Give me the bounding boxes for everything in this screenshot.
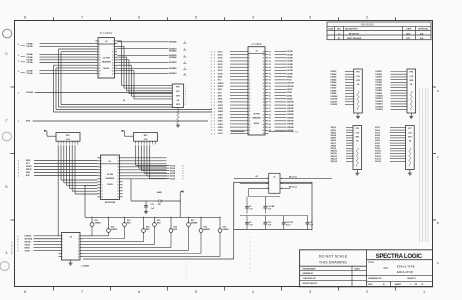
- wires RP1 pins down to U1: [61, 145, 97, 194]
- connector J2 pin stubs: [95, 41, 117, 76]
- svg-text:2: 2: [18, 92, 19, 94]
- svg-text:DIOB3/: DIOB3/: [376, 77, 383, 79]
- svg-text:2: 2: [211, 55, 212, 57]
- wires J2 lower-left pins routed down to bus: [54, 49, 213, 112]
- svg-text:8: 8: [24, 16, 26, 20]
- wire cap rail upper: [247, 197, 265, 205]
- svg-text:DIO7/: DIO7/: [218, 70, 223, 72]
- svg-text:THIS DRAWING: THIS DRAWING: [319, 260, 347, 264]
- svg-text:2: 2: [18, 121, 19, 123]
- svg-text:4: 4: [252, 290, 254, 294]
- hole punch top-left: [3, 29, 12, 38]
- svg-text:2: 2: [18, 163, 19, 165]
- svg-text:REN/: REN/: [218, 77, 223, 79]
- wire +5V drop to LED rail: [85, 186, 97, 218]
- svg-text:3: 3: [309, 16, 311, 20]
- svg-text:2: 2: [211, 99, 212, 101]
- svg-text:DIOB5/: DIOB5/: [376, 82, 383, 84]
- svg-text:GND5: GND5: [218, 114, 223, 116]
- svg-text:GREEN: GREEN: [111, 229, 118, 231]
- revisions table: [327, 22, 431, 40]
- svg-text:GND4: GND4: [218, 110, 223, 113]
- svg-text:22: 22: [249, 117, 251, 119]
- svg-text:DIO2B/: DIO2B/: [287, 54, 294, 56]
- svg-text:DIO5A/: DIO5A/: [27, 56, 34, 59]
- svg-text:5: 5: [195, 16, 197, 20]
- svg-text:25: 25: [249, 127, 251, 129]
- svg-text:DI012B/: DI012B/: [331, 101, 338, 103]
- crease line (faint dashed): [185, 261, 187, 278]
- svg-text:LPBKA/: LPBKA/: [25, 235, 32, 238]
- svg-text:2: 2: [211, 133, 212, 135]
- svg-text:RP3: RP3: [356, 72, 359, 74]
- svg-text:LOGC: LOGC: [218, 133, 224, 135]
- svg-text:GND8B/: GND8B/: [287, 124, 295, 126]
- svg-text:37: 37: [269, 108, 271, 110]
- svg-text:2: 2: [211, 114, 212, 116]
- junction dot U1 left: [84, 185, 85, 186]
- svg-text:ONLA/: ONLA/: [25, 243, 31, 246]
- svg-text:2: 2: [211, 86, 212, 88]
- capacitor C6: [263, 204, 275, 213]
- svg-text:30: 30: [269, 86, 271, 88]
- svg-text:2: 2: [211, 92, 212, 94]
- svg-text:2: 2: [211, 73, 212, 75]
- RP1 bottom pin labels: [58, 141, 79, 146]
- svg-text:2: 2: [214, 70, 215, 72]
- svg-text:DIO3B/: DIO3B/: [287, 58, 294, 60]
- svg-text:DI013B/: DI013B/: [331, 104, 338, 106]
- svg-text:19: 19: [249, 108, 251, 110]
- title block: [300, 250, 433, 287]
- svg-text:2: 2: [214, 130, 215, 132]
- svg-text:1: 1: [423, 290, 425, 294]
- svg-text:DI08B/: DI08B/: [331, 90, 337, 92]
- svg-text:RP5: RP5: [176, 87, 180, 89]
- svg-text:2: 2: [366, 290, 368, 294]
- svg-text:B: B: [5, 185, 7, 189]
- wire RP1 pin drop joins J6: [57, 235, 59, 237]
- svg-text:SPECTRA LOGIC: SPECTRA LOGIC: [376, 253, 423, 260]
- svg-text:DIO8B/: DIO8B/: [287, 73, 294, 75]
- svg-text:APCHKA: APCHKA: [25, 237, 33, 240]
- svg-text:36 PIN: 36 PIN: [103, 58, 110, 60]
- svg-text:DIO8/: DIO8/: [218, 73, 223, 75]
- U1 left control labels: [18, 160, 97, 177]
- label column between RP6 and RP7: [375, 127, 406, 163]
- LED DS7 AMBER: [187, 217, 198, 229]
- capacitor C8: [245, 220, 253, 229]
- svg-text:2: 2: [211, 130, 212, 132]
- svg-text:RP4: RP4: [410, 71, 413, 74]
- svg-text:DATA03/: DATA03/: [169, 61, 177, 64]
- J6 left labels and wires: [18, 235, 59, 253]
- svg-text:DAVB/: DAVB/: [287, 88, 293, 91]
- svg-text:2: 2: [211, 111, 212, 113]
- svg-text:DIO8A/: DIO8A/: [27, 42, 34, 45]
- svg-text:EOI/: EOI/: [26, 175, 30, 177]
- svg-text:REVISIONS: REVISIONS: [361, 24, 374, 27]
- svg-text:2: 2: [18, 160, 19, 162]
- svg-text:IFCB/: IFCB/: [287, 80, 292, 82]
- svg-text:DI03B/: DI03B/: [331, 77, 337, 79]
- svg-text:DIOB4/: DIOB4/: [376, 78, 383, 81]
- net label group right of J1 (feeds RP3): [331, 71, 338, 106]
- svg-text:DI04A: DI04A: [170, 172, 176, 175]
- svg-text:DI01B/: DI01B/: [331, 71, 337, 73]
- svg-text:CR1: CR1: [158, 204, 162, 206]
- svg-text:DIOB10/: DIOB10/: [376, 96, 384, 98]
- LED DS5 RED: [153, 217, 162, 229]
- capacitor C7A: [263, 220, 271, 229]
- svg-text:2: 2: [214, 51, 215, 53]
- svg-text:B3US: B3US: [103, 68, 109, 70]
- svg-text:ATN/: ATN/: [218, 94, 223, 97]
- svg-text:2: 2: [214, 61, 215, 63]
- svg-text:2: 2: [214, 105, 215, 107]
- svg-text:A CABLE: A CABLE: [251, 43, 262, 46]
- svg-text:2: 2: [214, 114, 215, 116]
- resistor pack RP4 (SIP): [407, 69, 416, 115]
- J5 right term labels: [284, 176, 333, 189]
- svg-text:SIG14/: SIG14/: [375, 160, 381, 163]
- svg-text:2: 2: [211, 124, 212, 126]
- zone column numbers bottom: [24, 290, 425, 294]
- svg-text:GND5B/: GND5B/: [287, 114, 295, 116]
- svg-text:J5: J5: [273, 176, 275, 178]
- svg-text:2: 2: [214, 83, 215, 85]
- svg-text:SIP8: SIP8: [176, 104, 180, 106]
- resistor pack RP2: [122, 130, 158, 141]
- svg-text:DATA04/: DATA04/: [169, 56, 177, 59]
- svg-text:2: 2: [214, 89, 215, 91]
- LED DS4 RED: [142, 217, 151, 235]
- svg-text:10: 10: [249, 80, 251, 82]
- svg-text:2: 2: [214, 73, 215, 75]
- capacitor C5: [245, 204, 253, 213]
- svg-text:31: 31: [269, 89, 271, 91]
- svg-text:CHECKED BY: CHECKED BY: [303, 278, 317, 280]
- svg-text:2: 2: [211, 64, 212, 66]
- svg-text:DIO6B/: DIO6B/: [287, 67, 294, 69]
- svg-text:DIO6A/: DIO6A/: [27, 53, 34, 56]
- svg-text:4: 4: [252, 16, 254, 20]
- svg-text:DATA06/: DATA06/: [169, 49, 177, 52]
- svg-text:DIO5B/: DIO5B/: [287, 64, 294, 66]
- svg-text:2: 2: [214, 102, 215, 104]
- svg-text:2: 2: [214, 55, 215, 57]
- svg-text:DI09B/: DI09B/: [331, 93, 337, 95]
- svg-text:2: 2: [211, 127, 212, 129]
- svg-text:FIRST RELEASE: FIRST RELEASE: [347, 37, 362, 40]
- svg-text:2: 2: [211, 108, 212, 110]
- svg-text:NDAC/: NDAC/: [218, 82, 224, 85]
- svg-text:36 PIN: 36 PIN: [253, 114, 260, 116]
- svg-text:NRFD/: NRFD/: [218, 86, 224, 88]
- svg-text:15: 15: [249, 95, 251, 97]
- J1 right pin wires: [275, 52, 287, 131]
- svg-text:11/91: 11/91: [406, 38, 410, 40]
- svg-text:2: 2: [211, 58, 212, 60]
- svg-text:DIAGA/: DIAGA/: [25, 240, 32, 243]
- svg-text:DRAWN BY: DRAWN BY: [303, 272, 315, 275]
- svg-text:NRFDB/: NRFDB/: [287, 86, 295, 88]
- svg-text:RP2: RP2: [144, 135, 148, 137]
- svg-text:DIO1/: DIO1/: [218, 51, 223, 53]
- svg-text:APPROVED BY: APPROVED BY: [303, 282, 318, 285]
- svg-text:SIG4/: SIG4/: [375, 134, 380, 137]
- svg-text:22: 22: [269, 61, 271, 63]
- svg-text:SRQ14/: SRQ14/: [331, 160, 338, 163]
- svg-text:2: 2: [18, 60, 19, 62]
- svg-text:SIP8: SIP8: [176, 95, 180, 97]
- svg-text:2: 2: [214, 133, 215, 135]
- svg-text:GND1: GND1: [218, 102, 223, 104]
- IC U1 SN75162: [101, 155, 120, 204]
- svg-text:IFC/: IFC/: [218, 80, 222, 82]
- hole punch bottom-left: [0, 262, 9, 271]
- svg-text:DATE: DATE: [355, 267, 361, 270]
- svg-text:EOIB/: EOIB/: [287, 92, 293, 94]
- svg-text:2: 2: [18, 166, 19, 168]
- svg-text:GN10B/: GN10B/: [287, 130, 294, 132]
- svg-text:DRAWING NO.: DRAWING NO.: [368, 277, 382, 280]
- svg-text:38: 38: [269, 111, 271, 113]
- svg-text:GND2: GND2: [218, 105, 223, 107]
- svg-text:DIOB9/: DIOB9/: [376, 93, 383, 95]
- svg-text:0000071 REV A: 0000071 REV A: [11, 241, 14, 255]
- svg-text:HEADER: HEADER: [252, 117, 261, 120]
- svg-text:GN10: GN10: [218, 130, 223, 132]
- svg-text:GND1B/: GND1B/: [287, 102, 295, 104]
- svg-text:GND9: GND9: [218, 127, 223, 129]
- svg-text:RENB/: RENB/: [287, 76, 293, 78]
- svg-text:DIO3A/: DIO3A/: [27, 61, 34, 64]
- svg-text:HEADER: HEADER: [106, 177, 115, 180]
- resistor pack RP6 (SIP): [353, 126, 362, 172]
- svg-text:A1: A1: [338, 37, 340, 40]
- svg-text:DI05B/: DI05B/: [331, 82, 337, 84]
- svg-text:RP7: RP7: [408, 128, 411, 130]
- svg-text:25: 25: [269, 70, 271, 72]
- svg-text:2: 2: [18, 239, 19, 241]
- svg-text:GND3B/: GND3B/: [287, 108, 295, 110]
- wire cap rail lower: [240, 216, 308, 221]
- svg-text:RP6: RP6: [356, 128, 359, 130]
- svg-text:DI04B/: DI04B/: [331, 78, 337, 81]
- svg-text:10: 10: [101, 185, 103, 187]
- svg-text:26: 26: [269, 73, 271, 75]
- svg-text:GREEN: GREEN: [222, 229, 229, 231]
- svg-text:SIP8: SIP8: [408, 137, 412, 139]
- svg-text:002: 002: [384, 266, 389, 270]
- diode CR1 with J4A/B label: [131, 179, 180, 206]
- svg-text:L130AH: L130AH: [82, 265, 90, 268]
- ground below RP7: [408, 172, 412, 176]
- J1 pin stubs: [245, 51, 269, 135]
- svg-text:DIO2/: DIO2/: [218, 54, 223, 56]
- svg-text:DIOB12/: DIOB12/: [376, 101, 384, 103]
- svg-text:DIO3/: DIO3/: [218, 58, 223, 60]
- svg-text:2: 2: [366, 16, 368, 20]
- svg-text:DIO4B/: DIO4B/: [287, 60, 294, 63]
- svg-text:2: 2: [18, 242, 19, 244]
- LED DS2 GREEN: [107, 217, 118, 235]
- svg-text:2: 2: [214, 92, 215, 94]
- svg-text:2: 2: [18, 248, 19, 250]
- connector J2 (36 pin header, B cable): [98, 31, 115, 78]
- svg-text:2: 2: [214, 86, 215, 88]
- J1 bottom stub wires: [231, 132, 298, 134]
- J1 left labels and wires: [211, 51, 245, 135]
- svg-text:12: 12: [101, 191, 103, 193]
- LED DS6 RED: [169, 217, 178, 235]
- svg-text:21: 21: [269, 58, 271, 60]
- svg-text:DI010B/: DI010B/: [331, 96, 338, 98]
- svg-text:2: 2: [211, 51, 212, 53]
- svg-text:8: 8: [77, 144, 78, 146]
- svg-text:GND7B/: GND7B/: [287, 121, 295, 123]
- svg-text:RP1: RP1: [66, 135, 70, 137]
- svg-text:2: 2: [211, 70, 212, 72]
- svg-text:EOI/: EOI/: [218, 92, 222, 94]
- svg-text:2: 2: [211, 105, 212, 107]
- svg-text:2: 2: [211, 96, 212, 98]
- svg-text:DI01A: DI01A: [170, 164, 176, 167]
- svg-text:5: 5: [195, 290, 197, 294]
- connector J6: [62, 233, 90, 268]
- svg-text:3: 3: [309, 290, 311, 294]
- wire inner cap rail: [249, 196, 280, 198]
- svg-text:2: 2: [18, 44, 19, 46]
- svg-text:7: 7: [81, 290, 83, 294]
- svg-text:0000071: 0000071: [407, 278, 416, 280]
- svg-text:2: 2: [18, 175, 19, 177]
- svg-text:B3US: B3US: [107, 184, 113, 186]
- svg-text:6: 6: [138, 290, 140, 294]
- svg-text:RE LAYOUT: RE LAYOUT: [349, 32, 360, 35]
- svg-text:GND2B/: GND2B/: [287, 105, 295, 107]
- svg-text:DIOB8/: DIOB8/: [376, 90, 383, 92]
- svg-text:DIO4A/: DIO4A/: [27, 59, 34, 62]
- zone column numbers top: [24, 16, 368, 20]
- svg-text:GND8: GND8: [218, 124, 223, 126]
- U1 pin stubs: [97, 158, 122, 199]
- svg-text:2: 2: [211, 77, 212, 79]
- svg-text:2: 2: [211, 61, 212, 63]
- svg-text:SN75162B: SN75162B: [105, 202, 116, 204]
- wires J2 right pins to DATA labels: [117, 40, 186, 75]
- svg-text:2: 2: [18, 245, 19, 247]
- svg-text:GPC: GPC: [176, 91, 181, 93]
- svg-text:20: 20: [249, 111, 251, 113]
- fold line (faint dashed): [249, 236, 251, 272]
- svg-text:18: 18: [249, 105, 251, 107]
- RP5 right pin marks: [185, 85, 186, 106]
- svg-text:2: 2: [211, 89, 212, 91]
- wires J2 left pins to labels: [40, 44, 96, 74]
- svg-text:REN/: REN/: [26, 160, 31, 162]
- svg-text:GND6B/: GND6B/: [287, 117, 295, 119]
- svg-text:23: 23: [269, 64, 271, 66]
- svg-text:SIP8: SIP8: [409, 80, 413, 82]
- J2 left signal labels (DIO pairs): [18, 42, 33, 75]
- svg-text:DI02A: DI02A: [170, 167, 176, 170]
- svg-text:NDAC/: NDAC/: [26, 165, 32, 168]
- capacitor C31: [306, 220, 314, 229]
- wire RP1 pin1 long drop to J6: [57, 145, 59, 236]
- svg-text:20: 20: [269, 54, 271, 56]
- svg-text:2: 2: [214, 64, 215, 66]
- svg-text:AB (term): AB (term): [289, 176, 297, 179]
- ground below RP4: [409, 115, 413, 119]
- wires J2 right pins routed down to RP5: [117, 41, 172, 99]
- node ATN/: [18, 120, 208, 123]
- svg-text:DIO2A/: DIO2A/: [27, 69, 34, 72]
- svg-text:2: 2: [214, 67, 215, 69]
- J6 pin stubs: [59, 236, 84, 259]
- LED DS9 GREEN: [218, 217, 229, 235]
- svg-text:27: 27: [249, 133, 251, 135]
- svg-text:GREEN: GREEN: [94, 222, 101, 224]
- ground below J6: [69, 260, 73, 265]
- svg-text:NRFD/: NRFD/: [26, 169, 32, 171]
- svg-text:DATA02/: DATA02/: [169, 67, 177, 70]
- svg-text:DI06B/: DI06B/: [331, 85, 337, 87]
- LED DS8 AMBER: [199, 217, 210, 235]
- svg-text:B CABLE: B CABLE: [100, 31, 112, 35]
- svg-text:2: 2: [211, 67, 212, 69]
- svg-text:2: 2: [214, 80, 215, 82]
- svg-text:EDM & TAPE: EDM & TAPE: [397, 265, 415, 269]
- svg-text:DI06A: DI06A: [170, 177, 176, 180]
- J1 right net labels column: [269, 51, 294, 132]
- svg-text:21: 21: [249, 114, 251, 116]
- svg-text:L2: L2: [296, 132, 298, 134]
- wires RP2 pins down to DI bus labels: [136, 145, 170, 178]
- svg-text:12: 12: [249, 86, 251, 88]
- svg-text:DIO4/: DIO4/: [218, 60, 223, 63]
- svg-text:2: 2: [214, 108, 215, 110]
- svg-text:32: 32: [269, 92, 271, 94]
- svg-text:17: 17: [249, 102, 251, 104]
- svg-text:DIO1B/: DIO1B/: [287, 51, 294, 53]
- svg-text:SIP8: SIP8: [355, 137, 359, 139]
- svg-text:DIOB13/: DIOB13/: [376, 104, 384, 106]
- svg-text:33: 33: [269, 95, 271, 97]
- connector J5 power header: [265, 173, 283, 193]
- svg-text:B3US: B3US: [254, 123, 260, 125]
- svg-text:DI07B/: DI07B/: [331, 88, 337, 90]
- svg-text:ATN/: ATN/: [26, 120, 31, 123]
- RP5 series resistor to ground: [176, 108, 180, 128]
- decoupling capacitor wire loop: [234, 182, 312, 229]
- junction dot bus: [123, 100, 124, 101]
- svg-text:HEADER: HEADER: [102, 61, 111, 64]
- svg-text:19: 19: [269, 51, 271, 53]
- svg-text:DI05A: DI05A: [170, 175, 176, 178]
- svg-text:2: 2: [214, 124, 215, 126]
- wires into RP6 left pins: [331, 127, 354, 163]
- svg-text:2: 2: [211, 121, 212, 123]
- svg-text:2: 2: [214, 127, 215, 129]
- svg-text:A: A: [437, 261, 439, 265]
- svg-text:2: 2: [18, 172, 19, 174]
- svg-text:ATNB/: ATNB/: [287, 94, 293, 97]
- svg-text:23: 23: [249, 121, 251, 123]
- svg-text:DATA01/: DATA01/: [169, 72, 177, 75]
- ground below RP6: [355, 172, 359, 176]
